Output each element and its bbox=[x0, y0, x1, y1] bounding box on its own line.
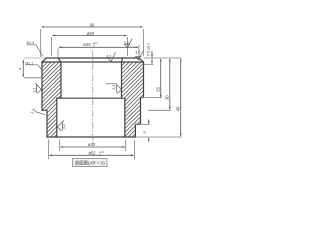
svg-text:5: 5 bbox=[142, 131, 147, 134]
svg-text:3.2: 3.2 bbox=[106, 54, 111, 58]
svg-text:30: 30 bbox=[164, 95, 169, 100]
svg-text:ø50: ø50 bbox=[87, 31, 95, 36]
svg-text:3.2: 3.2 bbox=[62, 124, 66, 129]
svg-text:25: 25 bbox=[155, 87, 160, 92]
svg-text:ø52: ø52 bbox=[88, 151, 96, 156]
svg-text:剖面图(AR + A): 剖面图(AR + A) bbox=[75, 160, 105, 167]
svg-text:0.5 ±0.1: 0.5 ±0.1 bbox=[147, 43, 151, 56]
svg-text:3.2: 3.2 bbox=[112, 85, 116, 90]
svg-text:3.2: 3.2 bbox=[124, 41, 129, 45]
svg-text:Ø1.5: Ø1.5 bbox=[27, 41, 35, 45]
svg-text:Ø1.1: Ø1.1 bbox=[26, 61, 34, 65]
svg-text:45: 45 bbox=[175, 106, 180, 111]
svg-text:3.2: 3.2 bbox=[33, 88, 37, 93]
svg-text:1.5: 1.5 bbox=[29, 107, 37, 115]
svg-text:3.2: 3.2 bbox=[135, 51, 140, 55]
svg-text:ø40: ø40 bbox=[83, 42, 91, 47]
svg-text:ø40: ø40 bbox=[88, 142, 96, 147]
svg-text:60: 60 bbox=[90, 22, 95, 27]
svg-text:4: 4 bbox=[18, 67, 23, 70]
